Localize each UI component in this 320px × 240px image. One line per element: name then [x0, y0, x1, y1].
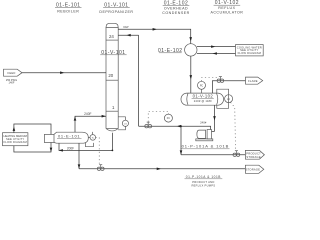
reboiler 01-E-101 vessel — [44, 132, 88, 143]
svg-text:PRODUCT: PRODUCT — [246, 151, 261, 155]
product storage control valve — [233, 151, 240, 157]
condenser outlet downcomer — [190, 56, 192, 93]
svg-text:01-E-101: 01-E-101 — [58, 133, 80, 138]
column 01-V-101 depropanizer vessel — [106, 23, 118, 131]
heating medium supply loop — [13, 124, 51, 134]
PC signal to flare valve — [202, 77, 219, 81]
svg-text:STORAGE: STORAGE — [246, 155, 261, 159]
svg-text:FLOW DIAGRAM: FLOW DIAGRAM — [238, 51, 262, 55]
storage flag — [245, 165, 263, 173]
pump 01-P-101A/B — [196, 130, 213, 141]
accumulator 01-V-102 vessel — [181, 93, 224, 105]
label reboiler title 01-E-101 — [55, 3, 82, 14]
accumulator tag text — [192, 94, 214, 103]
svg-text:FEED: FEED — [8, 71, 16, 75]
feed flag — [4, 69, 23, 76]
flare line — [212, 81, 245, 93]
svg-text:ACCUMULATOR: ACCUMULATOR — [210, 10, 243, 14]
cooling water return line — [197, 46, 236, 48]
column tray lines — [106, 39, 118, 41]
column bottoms to reboiler line — [59, 133, 114, 152]
reboiler vapor return line — [74, 115, 106, 132]
svg-text:240#: 240# — [200, 120, 207, 124]
feed line — [22, 72, 106, 74]
LC signal to product valve — [231, 102, 236, 149]
flare control valve — [217, 77, 224, 83]
svg-text:PC: PC — [200, 84, 204, 87]
svg-text:PRODUCT AND: PRODUCT AND — [192, 180, 214, 184]
svg-text:01-P-101A & 101B: 01-P-101A & 101B — [186, 175, 221, 179]
svg-text:REBOILER: REBOILER — [57, 10, 79, 14]
svg-text:01-P-101A & 101B: 01-P-101A & 101B — [182, 144, 230, 149]
bottoms product line — [78, 143, 246, 170]
svg-text:240# @ 118F: 240# @ 118F — [194, 99, 212, 103]
svg-text:01-V-102: 01-V-102 — [193, 94, 214, 99]
pump area tag — [181, 144, 230, 149]
vapor line to condenser — [118, 29, 191, 43]
heating medium return loop — [14, 143, 52, 153]
condenser 01-E-102 — [185, 44, 197, 56]
FC signal — [148, 112, 168, 122]
svg-text:VAP: VAP — [123, 25, 129, 29]
pump discharge line — [139, 126, 211, 129]
svg-text:DEPROPANIZER: DEPROPANIZER — [99, 10, 133, 14]
heating medium utility box — [3, 133, 28, 146]
reboiler tag — [57, 133, 82, 138]
FC instrument — [164, 114, 172, 122]
product line to storage (from pump discharge tee) — [180, 125, 246, 155]
TC signal to bottoms valve — [96, 137, 100, 164]
svg-text:STORAGE: STORAGE — [246, 167, 261, 171]
column tag 01-V-101 — [100, 50, 126, 56]
reflux control valve — [145, 122, 152, 128]
svg-text:24: 24 — [109, 34, 114, 39]
svg-text:CONDENSER: CONDENSER — [162, 11, 189, 15]
label overhead condenser title 01-E-102 — [162, 0, 189, 15]
svg-text:REFLUX PUMPS: REFLUX PUMPS — [191, 184, 215, 188]
label depropanizer title 01-V-101 — [99, 3, 133, 15]
svg-text:FLOW DIAGRAM: FLOW DIAGRAM — [3, 140, 27, 144]
label reflux accumulator title 01-V-102 — [210, 0, 243, 14]
svg-text:REFLUX: REFLUX — [218, 6, 235, 10]
flare flag — [246, 77, 263, 84]
bottoms control valve — [97, 165, 104, 171]
svg-text:200F: 200F — [67, 146, 74, 150]
svg-text:LG: LG — [124, 123, 127, 125]
cooling water utility box — [236, 45, 264, 56]
product storage flag — [245, 150, 264, 159]
label product and reflux pumps title 01-P-101A & 101B — [185, 175, 223, 188]
reboiler bottom loop — [86, 143, 94, 147]
svg-text:20: 20 — [108, 73, 113, 78]
PC instrument — [198, 81, 206, 93]
svg-text:LC: LC — [227, 98, 230, 101]
svg-text:OVERHEAD: OVERHEAD — [164, 6, 188, 10]
svg-text:240F: 240F — [84, 112, 91, 116]
LC instrument — [225, 95, 233, 103]
condenser tag — [158, 48, 183, 54]
svg-text:FC: FC — [167, 117, 170, 120]
LC level bridle on accumulator — [217, 89, 229, 108]
pump suction line — [212, 105, 216, 131]
LG instrument at column bottom — [118, 117, 129, 130]
svg-text:FLARE: FLARE — [248, 79, 258, 83]
cooling water supply line — [197, 53, 236, 55]
svg-text:140F: 140F — [9, 80, 15, 84]
TC instrument at reboiler — [88, 132, 95, 140]
reflux return line — [118, 34, 138, 126]
